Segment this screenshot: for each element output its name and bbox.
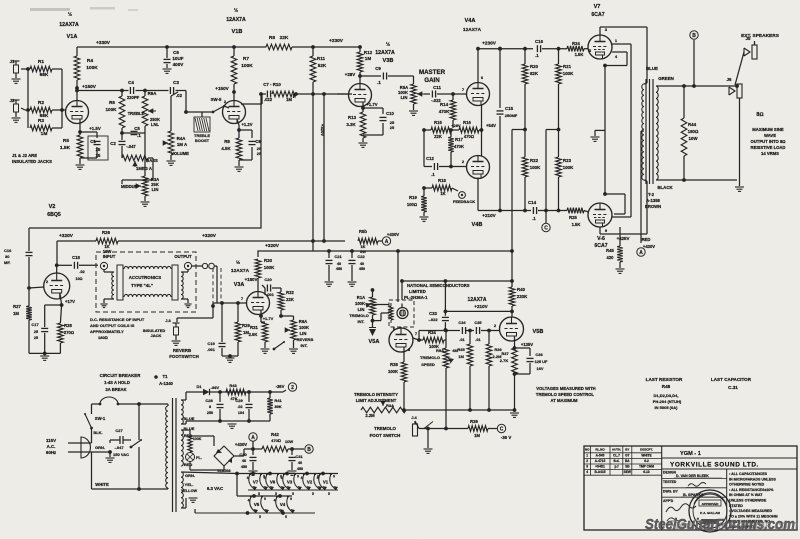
svg-text:D1: D1 [196,384,202,389]
svg-text:C21: C21 [334,254,342,259]
wire line A top [29,94,261,228]
svg-text:AND OUTPUT COILS IS: AND OUTPUT COILS IS [90,323,135,328]
transformer T1 core [173,398,177,512]
resistor R22 100K [522,157,541,211]
svg-text:450: 450 [241,465,247,469]
svg-text:12AX7A: 12AX7A [59,22,79,28]
text insulated jacks note [12,153,52,164]
svg-text:3.3K: 3.3K [346,122,356,127]
svg-text:100K: 100K [106,107,118,112]
wire +330V rail [77,45,266,49]
svg-text:1M A: 1M A [177,142,188,147]
svg-text:R23: R23 [563,158,572,163]
wire vertical 313 [312,94,314,240]
svg-text:R35: R35 [457,347,465,352]
text -36V node [276,383,297,392]
svg-text:V5: V5 [254,502,260,507]
svg-text:30: 30 [5,254,10,259]
svg-text:R48: R48 [662,384,671,389]
svg-text:TREMOLO: TREMOLO [374,426,397,431]
svg-text:1M: 1M [474,433,480,438]
svg-text:LIN: LIN [152,187,159,192]
svg-text:½: ½ [386,41,390,48]
svg-text:.1: .1 [377,80,381,85]
svg-text:SPEED: SPEED [421,362,435,367]
svg-text:25: 25 [34,330,38,334]
capacitor C16 30MF [4,248,33,265]
resistor R13 3.3K [346,112,365,142]
svg-text:GRN.: GRN. [185,473,195,478]
svg-text:R7: R7 [243,56,249,62]
svg-text:5: 5 [328,492,330,496]
svg-text:R1A: R1A [357,295,365,300]
wire plate V3B out [360,75,381,77]
svg-text:5: 5 [292,492,294,496]
reverb output jack [184,262,191,269]
svg-text:OUTPUT: OUTPUT [174,254,192,259]
wire reverb out connector [192,263,215,269]
svg-text:BLK.: BLK. [93,430,102,435]
capacitor C9 .1 [375,66,413,85]
svg-text:A: A [385,239,389,245]
svg-text:C9: C9 [375,66,381,71]
svg-text:½: ½ [68,11,72,18]
wire V1B plate out [241,92,266,104]
svg-text:R34: R34 [428,330,436,335]
wire to volume [176,91,188,114]
heater V4 [274,495,295,519]
svg-text:60Hz: 60Hz [46,450,57,455]
wire coupling stubs [512,129,559,131]
svg-text:100K: 100K [86,65,98,71]
svg-text:V2: V2 [49,204,56,210]
svg-text:8Ω: 8Ω [756,112,763,118]
wire grid V1A [65,109,67,111]
capacitor C34 .01 [458,320,466,342]
svg-text:R3A: R3A [386,403,394,408]
svg-text:+S4D1: +S4D1 [595,465,605,469]
wire bus 410 [402,408,516,412]
text RED [184,433,193,438]
tube V5A [369,326,413,352]
wire cathode V3B [361,102,378,112]
shielded cable dashes [213,266,221,303]
svg-text:V3A: V3A [234,282,245,288]
heater V6 [264,473,285,496]
capacitor C15 250MF [497,47,518,211]
svg-text:10UF: 10UF [172,56,183,61]
svg-text:-36V: -36V [276,384,285,389]
svg-text:1M: 1M [286,97,292,102]
wire heater top [181,472,239,476]
svg-text:40: 40 [298,461,302,465]
capacitor C35 .01 [466,320,499,342]
svg-text:V5B: V5B [533,329,544,335]
svg-text:LIN: LIN [401,95,408,100]
resistor R23 100K [556,157,574,211]
svg-text:FOOTSWITCH: FOOTSWITCH [169,354,199,359]
svg-text:.01: .01 [475,337,481,342]
wire mains neutral GRN [81,445,115,462]
jack J6 speaker [727,77,742,180]
ground [510,410,519,417]
svg-text:68K: 68K [40,72,49,78]
svg-text:100K: 100K [563,165,574,170]
wire green to jacks [662,84,739,88]
tube V4B [467,156,490,229]
wire +210V line [478,209,531,218]
wire V6 screen loop [605,194,625,214]
resistor R5 1.5K cathode [60,135,83,164]
svg-text:10Ω: 10Ω [75,277,82,281]
text reverb dc note [90,317,145,340]
jack J4 tremolo footswitch [411,415,419,436]
title block [584,446,797,532]
svg-text:+210V: +210V [482,213,496,218]
heater V7 [247,473,268,496]
svg-text:R42: R42 [271,432,279,437]
potentiometer R2A bass 1MEG [122,155,158,171]
text +230V [329,38,344,44]
svg-text:-36 V: -36 V [501,435,512,440]
svg-text:4: 4 [247,476,249,480]
svg-text:470Ω: 470Ω [464,134,474,139]
transformer T2 secondary winding [656,86,662,180]
svg-text:6-2: 6-2 [644,459,649,463]
ground [167,161,176,165]
tube V7 6CA7 [588,4,612,59]
svg-text:C: C [544,226,548,232]
svg-text:+230V: +230V [482,41,497,47]
svg-text:R13: R13 [348,115,357,120]
resistor R12 1M grid [357,47,372,84]
switch SW-1 mains [84,404,106,443]
tube V6 6CA7 [588,203,629,249]
svg-text:C16: C16 [4,248,12,253]
resistor R25 1.5K [567,208,589,227]
text circuit breaker [100,373,142,392]
oscillator lamp [397,308,408,319]
svg-text:MAXIMUM SINE: MAXIMUM SINE [752,127,784,132]
svg-text:9: 9 [264,497,266,501]
svg-text:180Ω: 180Ω [98,335,108,340]
svg-text:V6: V6 [270,480,276,485]
svg-text:R43: R43 [229,383,237,388]
text TYPE 4L [131,283,153,288]
svg-text:J1: J1 [9,59,15,64]
svg-text:A: A [639,250,643,256]
wire [21,108,30,110]
svg-text:C5: C5 [134,126,140,131]
svg-text:J2: J2 [9,98,15,103]
text GREEN [658,76,674,81]
svg-text:1M: 1M [365,56,372,61]
svg-text:+28V: +28V [345,72,355,77]
svg-text:STATED: STATED [729,504,743,508]
wire [232,47,236,100]
svg-text:100Ω: 100Ω [407,202,417,207]
text 10n R6B [75,277,82,281]
svg-text:V2: V2 [307,480,313,485]
svg-text:R8: R8 [224,139,230,144]
wire [26,69,30,128]
svg-text:DWG. BY: DWG. BY [663,490,679,494]
wire bias bottom [181,419,270,431]
svg-text:+180V: +180V [245,277,258,282]
svg-text:+330V: +330V [96,40,111,46]
svg-text:J.3: J.3 [165,318,171,323]
wire bias top [181,392,196,421]
capacitor C6 10UF 400V [163,47,185,73]
svg-text:R26: R26 [102,230,111,235]
svg-text:250: 250 [207,411,213,415]
svg-text:R14: R14 [440,102,449,107]
wire volume node [171,92,178,131]
svg-text:100K: 100K [530,165,541,170]
resistor R43 47K [226,383,246,401]
wire 512 vertical [510,130,514,318]
svg-text:3A BREAK: 3A BREAK [105,387,126,392]
svg-text:+425V: +425V [617,236,630,241]
wire [21,67,30,71]
capacitor C12 .1 [424,130,467,177]
wire center tap RED [641,131,655,249]
capacitor C33 .022 [428,281,448,332]
svg-text:2.6K: 2.6K [249,332,258,337]
svg-text:4.5K: 4.5K [221,146,231,151]
text T-2 A-1358 BROWN [645,192,661,209]
svg-text:IN MICROFARADS UNLESS: IN MICROFARADS UNLESS [729,477,777,481]
svg-text:470Ω: 470Ω [271,438,281,443]
resistor R16 470 [451,120,496,139]
svg-text:R6: R6 [109,100,115,105]
svg-text:R37: R37 [501,351,509,356]
wire V7 screen loop [603,52,627,67]
wire cathode V4B [477,178,479,211]
svg-text:39K: 39K [274,404,281,409]
wire [52,69,64,112]
wire [120,131,124,140]
wire V7 pin1 [612,38,631,44]
capacitor C29 [235,392,252,421]
svg-text:GREEN: GREEN [658,76,674,81]
svg-text:C19: C19 [207,341,215,346]
svg-text:V4B: V4B [472,222,483,228]
svg-text:3: 3 [586,465,588,469]
svg-text:OUTPUT INTO 8Ω: OUTPUT INTO 8Ω [750,139,785,144]
capacitor C7 .022 [263,82,281,102]
resistor R39 1M [468,419,497,438]
svg-text:R44: R44 [688,122,697,127]
svg-text:5: 5 [258,492,260,496]
capacitor C14 .1 [528,200,567,221]
svg-text:V7: V7 [594,4,601,10]
resistor R10 1M [272,91,298,102]
svg-text:6-13: 6-13 [643,470,650,474]
svg-text:40: 40 [360,262,364,266]
svg-text:25: 25 [34,336,38,340]
resistor R20 82K [522,49,539,157]
svg-text:100K: 100K [299,325,309,330]
svg-text:R11: R11 [317,56,326,61]
wire rail to V3B section [292,45,362,49]
svg-text:4: 4 [264,476,266,480]
svg-text:150 VAC: 150 VAC [113,452,129,457]
svg-text:100K: 100K [563,71,574,76]
resistor R26 1K 10W [96,230,118,254]
wire screen column [603,66,607,196]
text last capacitor [711,377,752,390]
interlock switch [113,439,142,457]
svg-text:B: B [307,447,311,453]
svg-text:GAIN: GAIN [424,77,440,84]
wire J5 to J6 diagonal [735,52,744,85]
svg-text:C11: C11 [433,85,441,90]
svg-text:+320V: +320V [320,124,325,136]
svg-text:115V: 115V [46,438,56,443]
svg-text:22K: 22K [434,134,442,139]
svg-text:GT: GT [625,453,629,457]
svg-text:100K: 100K [193,437,202,441]
svg-text:V4: V4 [280,502,286,507]
wire [52,110,62,128]
svg-text:B: B [692,33,696,39]
svg-text:C17: C17 [31,322,39,327]
svg-text:C28: C28 [205,398,213,403]
svg-text:R19: R19 [409,195,417,200]
svg-text:C20: C20 [264,277,272,282]
svg-text:52K: 52K [318,63,327,68]
wire to master vol [337,93,352,95]
svg-text:RESISTIVE LOAD: RESISTIVE LOAD [751,145,786,150]
wire +230V rail right [476,41,533,51]
svg-text:YORKVILLE SOUND LTD.: YORKVILLE SOUND LTD. [670,462,759,469]
wire grid V3B [337,72,355,94]
svg-text:TREBLE: TREBLE [128,111,145,116]
svg-text:450: 450 [359,267,365,271]
text ACCUTRONICS [129,275,162,280]
text national semiconductors [404,283,470,300]
wire V5A cathode [404,347,411,352]
svg-text:FL.: FL. [196,455,202,460]
svg-text:RED: RED [642,237,651,242]
svg-text:C12: C12 [426,156,434,161]
svg-text:T1: T1 [162,374,168,379]
wire mains hot [81,442,92,444]
svg-text:WHITE: WHITE [641,453,651,457]
svg-text:C14: C14 [528,200,537,205]
svg-text:5: 5 [275,492,277,496]
svg-text:C35: C35 [474,320,482,325]
svg-text:450: 450 [336,267,342,271]
svg-text:2.2M: 2.2M [365,413,375,418]
text +150V [215,86,229,91]
svg-text:270Ω: 270Ω [64,330,74,335]
svg-text:R18: R18 [438,178,446,183]
wire heater bus lower [248,489,338,491]
resistor R6 100K [106,96,125,128]
wire cathode V5B [513,337,534,350]
svg-text:J1 & J2 ARE: J1 & J2 ARE [12,153,37,158]
svg-text:4: 4 [586,470,588,474]
svg-text:LAST RESISTOR: LAST RESISTOR [646,377,683,382]
svg-text:-86V: -86V [211,385,220,390]
svg-text:4: 4 [281,476,283,480]
resistor R5b 1K 5W [358,229,378,254]
ground [420,217,429,221]
capacitor C28 250MF [205,392,223,421]
svg-text:+54V: +54V [486,123,496,128]
wire tone top [122,89,165,93]
svg-text:FOOT SWITCH: FOOT SWITCH [370,433,401,438]
reverb tank dashed box [96,252,196,312]
svg-text:R40: R40 [517,287,526,292]
jack J3 footswitch [165,303,213,345]
resistor R31 2.6K [249,322,270,353]
wire [419,427,468,431]
wire V2 grid [29,279,49,288]
wire volume wiper to SW5 [186,111,213,113]
switch SW-5 treble boost [211,97,225,113]
svg-text:22K: 22K [280,35,289,41]
svg-text:BLUE: BLUE [184,416,195,421]
heater V5 [248,495,269,519]
svg-text:R27: R27 [13,304,21,309]
svg-text:YELLOW: YELLOW [181,489,198,493]
svg-text:100K: 100K [388,369,398,374]
svg-text:C15: C15 [505,106,514,111]
transformer T1 secondary heater [181,472,183,508]
wire V6 plate loop [600,181,647,234]
svg-text:MASTER: MASTER [419,69,446,76]
svg-text:R22: R22 [530,158,539,163]
wire +210V line trem [444,304,513,313]
svg-text:R3: R3 [38,118,44,124]
svg-text:RED: RED [184,462,193,467]
svg-text:C34: C34 [458,320,466,325]
text RED2 [184,462,193,467]
reverb output coil [181,270,192,308]
svg-text:R6A: R6A [299,319,307,324]
svg-text:400V: 400V [173,62,185,67]
wire breaker to transformer [118,402,168,406]
svg-text:APPROVED: APPROVED [702,502,720,506]
resistor RB 4.5K cathode V1B [221,138,241,166]
svg-text:4: 4 [248,499,250,503]
svg-text:12AX7A: 12AX7A [231,268,250,274]
svg-text:BY: BY [625,448,629,452]
svg-text:LIMITED: LIMITED [409,289,426,294]
heater V2 [301,473,322,496]
svg-text:C7 - R10: C7 - R10 [263,82,281,87]
svg-text:-.047: -.047 [126,144,136,149]
jack J5 ext speakers [741,33,780,59]
svg-text:1.5K: 1.5K [572,222,581,227]
wire plate V1A to rail [75,47,79,100]
svg-text:R38: R38 [390,362,398,367]
svg-text:GRN.: GRN. [95,445,105,450]
resistor R21 100K [556,47,574,157]
svg-text:C4: C4 [128,80,134,85]
svg-text:8: 8 [209,405,211,409]
potentiometer R9A 4M tremolo speed [420,340,458,374]
svg-text:R31: R31 [250,325,258,330]
node A 430V [378,232,399,245]
wire cathode V4A bias chain [481,106,483,131]
svg-text:ACCUTRONICS: ACCUTRONICS [129,275,162,280]
wire 398 down to osc [397,251,399,302]
svg-text:BROWN: BROWN [645,204,661,209]
